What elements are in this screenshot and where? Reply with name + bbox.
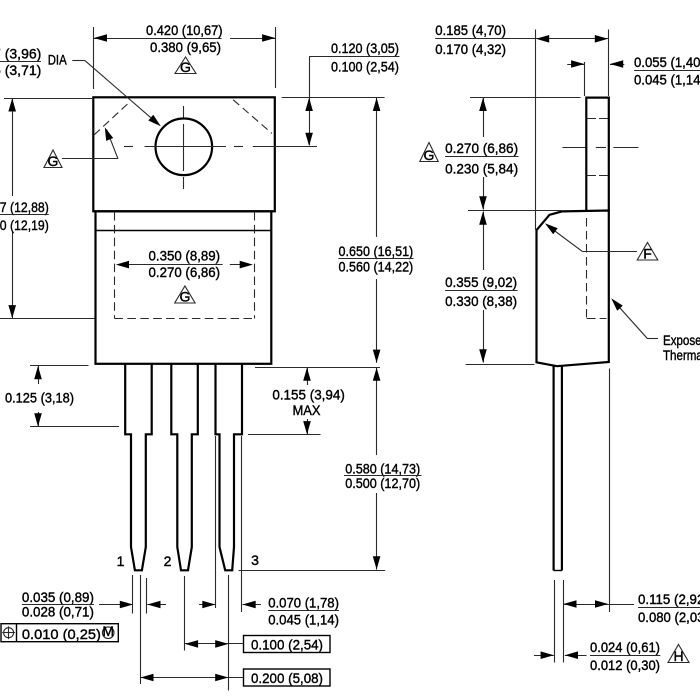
svg-text:0.115 (2,92): 0.115 (2,92) bbox=[638, 591, 700, 607]
svg-text:0.070 (1,78): 0.070 (1,78) bbox=[268, 594, 339, 610]
svg-text:2: 2 bbox=[164, 553, 172, 569]
svg-text:MAX: MAX bbox=[293, 402, 322, 418]
svg-text:0.200 (5,08): 0.200 (5,08) bbox=[251, 670, 323, 686]
svg-text:0.125 (3,18): 0.125 (3,18) bbox=[5, 389, 74, 405]
svg-text:0.500 (12,70): 0.500 (12,70) bbox=[345, 475, 420, 491]
svg-text:Exposed: Exposed bbox=[663, 332, 700, 348]
svg-text:0 (12,19): 0 (12,19) bbox=[0, 217, 49, 233]
svg-text:0.420 (10,67): 0.420 (10,67) bbox=[146, 22, 223, 38]
svg-text:G: G bbox=[424, 147, 435, 163]
svg-text:0.155 (3,94): 0.155 (3,94) bbox=[272, 386, 345, 402]
svg-text:1: 1 bbox=[117, 553, 125, 569]
svg-text:0.010 (0,25): 0.010 (0,25) bbox=[22, 626, 101, 642]
svg-text:7 (12,88): 7 (12,88) bbox=[0, 199, 49, 215]
svg-text:0.028 (0,71): 0.028 (0,71) bbox=[22, 603, 94, 619]
svg-text:0.100 (2,54): 0.100 (2,54) bbox=[331, 58, 399, 74]
svg-text:0.185 (4,70): 0.185 (4,70) bbox=[435, 22, 506, 38]
svg-text:DIA: DIA bbox=[48, 51, 68, 67]
svg-text:0.350 (8,89): 0.350 (8,89) bbox=[149, 248, 221, 264]
svg-text:0.146 (3,71): 0.146 (3,71) bbox=[0, 62, 41, 78]
svg-text:0.045 (1,14): 0.045 (1,14) bbox=[634, 72, 700, 88]
svg-text:0.120 (3,05): 0.120 (3,05) bbox=[331, 40, 399, 56]
svg-text:0.012 (0,30): 0.012 (0,30) bbox=[590, 657, 660, 673]
svg-text:0.100 (2,54): 0.100 (2,54) bbox=[251, 636, 323, 652]
svg-text:0.230 (5,84): 0.230 (5,84) bbox=[445, 160, 518, 176]
svg-text:0.045 (1,14): 0.045 (1,14) bbox=[268, 612, 339, 628]
svg-text:G: G bbox=[180, 59, 191, 75]
svg-text:3: 3 bbox=[251, 552, 259, 568]
svg-text:0.270 (6,86): 0.270 (6,86) bbox=[445, 140, 518, 156]
svg-text:0.080 (2,03): 0.080 (2,03) bbox=[638, 609, 700, 625]
svg-text:G: G bbox=[48, 153, 59, 169]
svg-text:0.330 (8,38): 0.330 (8,38) bbox=[445, 293, 517, 309]
svg-text:H: H bbox=[673, 648, 683, 664]
svg-text:0.380 (9,65): 0.380 (9,65) bbox=[150, 39, 221, 55]
svg-text:0.355 (9,02): 0.355 (9,02) bbox=[445, 274, 517, 290]
svg-text:0.157 (3,96): 0.157 (3,96) bbox=[0, 46, 41, 62]
svg-text:0.650 (16,51): 0.650 (16,51) bbox=[339, 243, 414, 259]
svg-text:Thermal Pad: Thermal Pad bbox=[663, 347, 700, 363]
svg-text:0.270 (6,86): 0.270 (6,86) bbox=[149, 264, 221, 280]
svg-text:0.170 (4,32): 0.170 (4,32) bbox=[435, 41, 506, 57]
svg-text:0.055 (1,40): 0.055 (1,40) bbox=[634, 54, 700, 70]
svg-text:M: M bbox=[102, 623, 114, 639]
svg-text:G: G bbox=[179, 289, 190, 305]
svg-text:0.560 (14,22): 0.560 (14,22) bbox=[339, 258, 414, 274]
svg-text:0.024 (0,61): 0.024 (0,61) bbox=[590, 639, 660, 655]
svg-text:F: F bbox=[643, 246, 652, 262]
